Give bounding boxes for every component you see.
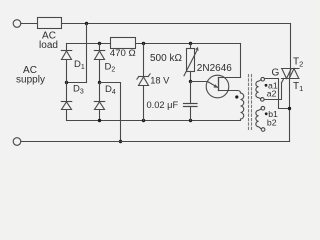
terminal bottom-left bbox=[13, 138, 21, 146]
transformer secondary winding a bbox=[256, 77, 265, 101]
label AC supply bbox=[16, 65, 45, 86]
svg-text:2N2646: 2N2646 bbox=[197, 63, 232, 74]
node D1-D3 midpoint bbox=[65, 81, 68, 84]
transformer core bbox=[248, 75, 250, 131]
resistor 470 ohm bbox=[111, 38, 136, 49]
potentiometer 500k bbox=[184, 44, 199, 82]
node zener bottom bbox=[142, 119, 145, 122]
node a1/T1 junction bbox=[288, 107, 291, 110]
node capacitor bottom bbox=[189, 119, 192, 122]
transformer primary winding bbox=[241, 93, 244, 121]
node AC2 on bottom bus bbox=[119, 140, 122, 143]
node pot top bbox=[189, 42, 192, 45]
terminal a1 bbox=[261, 77, 265, 81]
triac T1/T2 bbox=[282, 24, 300, 142]
base B2 lead bbox=[219, 77, 241, 79]
wire a1 to T1 node bbox=[264, 79, 289, 109]
wire AC line 2 from midpoint D2-D4 bbox=[100, 83, 121, 142]
node pot bottom / emitter bbox=[189, 80, 192, 83]
diode D1 bbox=[61, 44, 71, 83]
wire terminal to load bbox=[21, 23, 38, 25]
transistor U1 2N2646 UJT bbox=[206, 75, 240, 98]
terminal top-left bbox=[13, 20, 21, 28]
node D2-D4 midpoint bbox=[98, 81, 101, 84]
svg-text:G: G bbox=[272, 68, 280, 79]
node D2 top bbox=[98, 42, 101, 45]
wire dc rail right segment bbox=[136, 43, 241, 45]
svg-text:500 kΩ: 500 kΩ bbox=[150, 53, 182, 64]
transformer secondary winding b bbox=[256, 106, 265, 131]
terminal b1 bbox=[261, 106, 265, 110]
wire to D1-D3 midpoint bbox=[67, 82, 87, 84]
label b1 bbox=[265, 112, 268, 115]
gate lead bbox=[282, 79, 284, 83]
svg-text:470 Ω: 470 Ω bbox=[110, 48, 136, 59]
primary polarity dot bbox=[235, 95, 238, 98]
capacitor 0.02uF bbox=[184, 104, 198, 121]
wire emitter bbox=[191, 81, 208, 83]
wire a2 to gate bbox=[264, 83, 281, 100]
label a1 bbox=[265, 84, 268, 87]
wire bottom bus bbox=[21, 141, 290, 143]
terminal a2 bbox=[261, 98, 265, 102]
label AC load bbox=[39, 31, 58, 52]
svg-text:18 V: 18 V bbox=[150, 76, 170, 86]
node junction top bus bbox=[85, 22, 88, 25]
node zener top bbox=[142, 42, 145, 45]
diode D3 bbox=[61, 83, 71, 121]
node D4 bottom bbox=[98, 119, 101, 122]
wire pot to capacitor bbox=[190, 82, 192, 104]
diode D2 bbox=[94, 44, 104, 83]
wire dc minus bus bbox=[67, 120, 241, 122]
resistor AC load bbox=[38, 18, 62, 29]
base B1 lead bbox=[219, 91, 241, 94]
wire top bus bbox=[62, 23, 291, 25]
wire dc rail left segment bbox=[67, 43, 111, 45]
svg-text:load: load bbox=[39, 40, 58, 51]
terminal b2 bbox=[261, 128, 265, 132]
zener diode 18V bbox=[137, 44, 150, 121]
diode D4 bbox=[94, 83, 104, 121]
wire rail corner down to B2 bbox=[240, 44, 242, 78]
wire AC line down bbox=[86, 24, 88, 83]
svg-text:b2: b2 bbox=[267, 117, 277, 127]
svg-text:supply: supply bbox=[16, 74, 45, 85]
svg-text:0.02 μF: 0.02 μF bbox=[147, 100, 179, 110]
svg-text:a2: a2 bbox=[267, 89, 277, 99]
